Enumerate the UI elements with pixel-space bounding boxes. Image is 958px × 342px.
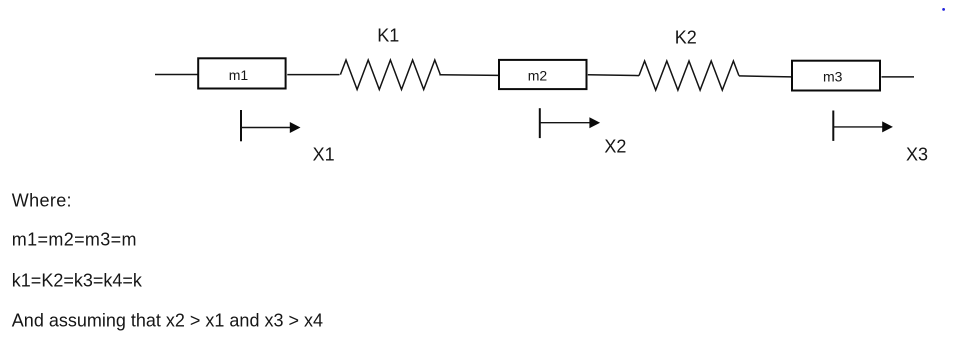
svg-text:And assuming that x2 > x1 and: And assuming that x2 > x1 and x3 > x4 (12, 311, 323, 331)
mass m1 (198, 58, 285, 88)
svg-text:m1: m1 (229, 67, 249, 83)
wire K2 to m3 (739, 76, 791, 77)
svg-text:m1=m2=m3=m: m1=m2=m3=m (12, 230, 137, 250)
svg-text:X1: X1 (313, 145, 335, 165)
wire right lead of m3 (882, 76, 915, 78)
displacement reference bar x3 (832, 111, 834, 141)
wire m1 to K1 (287, 74, 339, 76)
arrowhead x1 (290, 122, 301, 133)
displacement arrow x1 (241, 127, 291, 129)
displacement reference bar x2 (539, 108, 541, 138)
arrowhead x3 (882, 121, 893, 132)
arrowhead x2 (589, 117, 600, 128)
spring K2 (639, 61, 739, 90)
svg-text:Where:: Where: (12, 190, 72, 210)
blue speck (cursor dot) top right (942, 8, 945, 11)
svg-text:m2: m2 (528, 67, 548, 83)
mass m3 (792, 61, 880, 91)
svg-text:K2: K2 (675, 28, 697, 48)
displacement reference bar x1 (240, 110, 242, 141)
wire left lead of m1 (155, 74, 198, 76)
wire m2 to K2 (588, 74, 639, 77)
displacement arrow x2 (540, 122, 590, 124)
svg-text:K1: K1 (377, 26, 399, 46)
spring K1 (340, 60, 440, 90)
svg-text:k1=K2=k3=k4=k: k1=K2=k3=k4=k (12, 270, 143, 290)
displacement arrow x3 (833, 126, 883, 128)
svg-text:m3: m3 (823, 68, 843, 84)
svg-text:X2: X2 (604, 137, 626, 157)
wire K1 to m2 (439, 74, 498, 77)
mass m2 (499, 60, 587, 89)
svg-text:X3: X3 (906, 144, 928, 164)
